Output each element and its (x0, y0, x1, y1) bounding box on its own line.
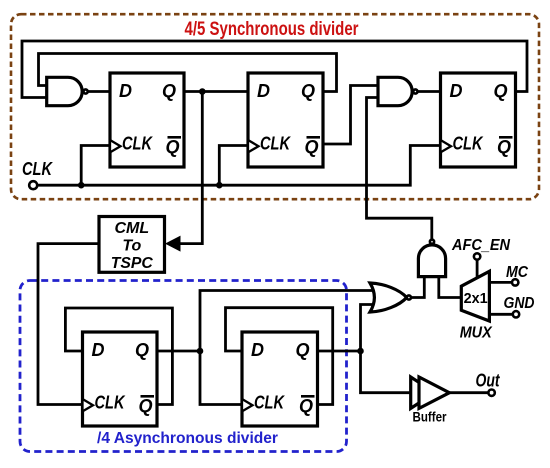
wire: junction up to NOR top input (200, 291, 376, 352)
CLK input terminal (29, 181, 37, 189)
svg-text:Q: Q (493, 81, 507, 101)
NAND gate U2 (378, 77, 418, 105)
wire: FF5 Q to junction (318, 350, 361, 353)
junction: CLK bus to FF1 (78, 182, 85, 189)
wire: CML output down to FF4 CLK (38, 244, 99, 405)
wire: NAND U3 right input to MUX output (439, 277, 462, 298)
wire: junction down to FF5 CLK (200, 351, 242, 405)
junction: CLK bus to FF2 (216, 182, 223, 189)
svg-text:Q: Q (138, 396, 152, 416)
NOR gate (370, 283, 411, 312)
flip-flop FF1 (110, 73, 184, 167)
flip-flop FF3 (441, 73, 516, 167)
MUX 2x1 (461, 271, 489, 321)
flip-flop FF2 (248, 73, 323, 167)
flip-flop FF5 (242, 332, 318, 426)
svg-text:D: D (450, 81, 463, 101)
svg-text:Q: Q (497, 137, 511, 157)
GND terminal (513, 311, 519, 317)
arrowhead into CML block (165, 236, 181, 252)
svg-text:To: To (122, 238, 141, 255)
CML to TSPC converter block (99, 217, 165, 273)
buffer (double triangle) (411, 377, 450, 408)
wire: FF5 Qbar feedback to FF5 D (226, 308, 333, 405)
wire: FF1 Q down to CML arrow (180, 92, 202, 244)
wire: NAND U1 output to FF1 D (88, 90, 110, 93)
svg-text:2x1: 2x1 (464, 290, 488, 307)
svg-text:Buffer: Buffer (413, 410, 448, 425)
svg-text:Q: Q (162, 81, 176, 101)
svg-text:Q: Q (301, 81, 315, 101)
wire: NAND U2 output to FF3 D (418, 90, 441, 93)
wire: junction up to NOR bottom input (361, 305, 376, 352)
svg-text:/4 Asynchronous divider: /4 Asynchronous divider (97, 430, 278, 447)
NAND gate U1 (47, 77, 88, 105)
wire: FF1 Q to FF2 D (184, 90, 248, 93)
wire: riser to FF1 CLK (81, 146, 110, 186)
NAND gate U3 (vertical) (418, 240, 445, 277)
svg-text:CLK: CLK (22, 159, 54, 179)
svg-text:CLK: CLK (122, 134, 154, 154)
svg-text:Q: Q (295, 340, 309, 360)
wire: MUX to MC terminal (489, 281, 511, 284)
Out terminal (488, 390, 494, 396)
svg-text:Q: Q (135, 340, 149, 360)
wire: FF2 Qbar to NAND U2 top input (323, 86, 379, 145)
svg-text:CML: CML (114, 220, 149, 237)
dashed box: /4 asynchronous divider (20, 281, 347, 452)
AFC_EN terminal (474, 253, 480, 259)
dashed box: 4/5 synchronous divider (11, 14, 539, 199)
svg-text:4/5 Synchronous divider: 4/5 Synchronous divider (185, 19, 359, 40)
MC terminal (512, 279, 518, 285)
wire: FF4 Q to junction (157, 350, 200, 353)
wire: NOR output to NAND U3 left input (411, 277, 424, 298)
svg-text:GND: GND (504, 295, 535, 312)
svg-text:CLK: CLK (453, 134, 485, 154)
flip-flop FF4 (83, 332, 158, 426)
junction: FF1 Q node (199, 88, 206, 95)
wire: MUX to GND terminal (489, 313, 512, 316)
wire: CLK bus from input terminal to FF3 CLK (37, 146, 440, 186)
svg-text:Q: Q (304, 137, 318, 157)
svg-text:AFC_EN: AFC_EN (451, 237, 510, 254)
svg-text:CLK: CLK (260, 134, 292, 154)
wire: NAND U3 output up to NAND U2 bottom input (367, 98, 432, 240)
wire: riser to FF2 CLK (219, 146, 248, 186)
svg-text:D: D (251, 340, 264, 360)
wire: FF2 Q feedback to NAND U1 top input (39, 54, 337, 92)
wire: FF4 Qbar feedback to FF4 D (65, 308, 172, 405)
wire: AFC_EN terminal to MUX select (476, 261, 479, 279)
svg-text:Q: Q (165, 137, 179, 157)
wire: junction down to buffer input (361, 351, 411, 393)
svg-text:Q: Q (299, 396, 313, 416)
svg-text:MC: MC (506, 264, 528, 281)
svg-text:D: D (257, 81, 270, 101)
svg-text:D: D (119, 81, 132, 101)
wire: FF3 Q feedback to NAND U1 bottom input (22, 41, 527, 98)
svg-text:TSPC: TSPC (111, 255, 153, 272)
svg-text:MUX: MUX (460, 325, 493, 342)
svg-text:Out: Out (476, 371, 501, 391)
svg-text:CLK: CLK (254, 393, 286, 413)
wire: buffer output to Out terminal (449, 391, 487, 394)
junction: FF4 Q node (197, 348, 204, 355)
svg-text:CLK: CLK (95, 393, 127, 413)
svg-text:D: D (92, 340, 105, 360)
junction: FF5 Q node (357, 348, 364, 355)
